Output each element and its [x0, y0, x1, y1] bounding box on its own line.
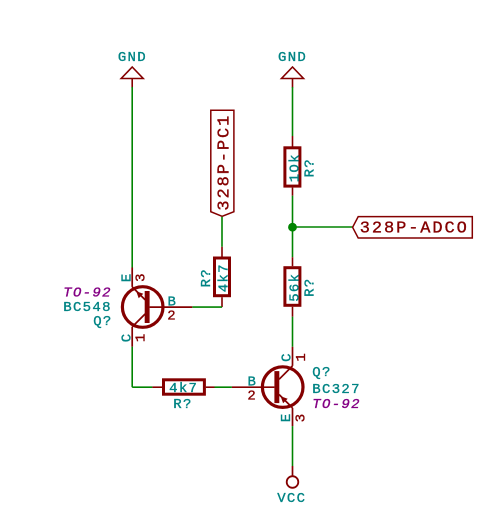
svg-text:4k7: 4k7 — [217, 263, 233, 292]
svg-text:4k7: 4k7 — [169, 381, 198, 397]
Q1 body circle — [122, 287, 163, 328]
svg-text:GND: GND — [118, 50, 147, 66]
global label 328P-ADC0 — [353, 217, 473, 239]
svg-text:Q?: Q? — [93, 314, 112, 330]
Q2 body circle — [262, 367, 303, 408]
power symbol GND (left) — [118, 50, 147, 87]
wire R 4k7 horizontal to Q2 base — [215, 386, 232, 388]
resistor R? 4k7 (horizontal, base of Q2) — [152, 380, 214, 413]
svg-text:328P-PC1: 328P-PC1 — [215, 114, 234, 211]
wire junction to label ADC0 — [293, 226, 353, 228]
svg-text:VCC: VCC — [277, 491, 306, 507]
global label 328P-PC1 — [211, 110, 235, 216]
svg-text:R?: R? — [303, 158, 319, 177]
svg-text:BC327: BC327 — [312, 382, 361, 398]
Q1 emitter arrow — [136, 291, 143, 298]
wire Q1 collector down and right to R 4k7 horizontal — [132, 347, 152, 388]
Q2 base bar — [274, 371, 279, 403]
Q2 emitter pin 3 — [279, 395, 292, 408]
wire R 10k bottom to junction to R 56k — [292, 196, 294, 258]
svg-text:R?: R? — [173, 397, 192, 413]
resistor R? 10k — [285, 136, 319, 196]
wire R 4k7 bottom to Q1 base — [192, 306, 222, 308]
svg-text:1: 1 — [134, 332, 150, 342]
svg-text:TO-92: TO-92 — [312, 397, 361, 413]
transistor Q2 BC327 (PNP, TO-92) — [232, 347, 361, 426]
svg-text:1Ok: 1Ok — [287, 153, 303, 182]
junction node ADC0 — [288, 223, 297, 232]
Q1 emitter pin 3 — [131, 268, 133, 287]
svg-text:328P-ADCO: 328P-ADCO — [360, 219, 469, 238]
Q1 base bar — [145, 291, 150, 323]
Q2 base pin 2 — [232, 386, 275, 388]
Q1 base pin 2 — [150, 306, 193, 308]
Q1 collector pin 1 — [132, 314, 145, 327]
power symbol GND (right) — [278, 50, 307, 88]
wire GND left rail down to Q1 emitter — [131, 87, 133, 268]
wire label PC1 down to R 4k7 — [221, 217, 223, 247]
svg-text:Q?: Q? — [312, 365, 331, 381]
svg-text:56k: 56k — [287, 273, 303, 302]
svg-text:3: 3 — [134, 272, 150, 282]
svg-text:3: 3 — [294, 413, 310, 423]
power symbol VCC — [277, 466, 306, 507]
resistor R? 4k7 (vertical, base of Q1) — [199, 247, 233, 307]
wire GND right rail down to R 10k — [292, 87, 294, 136]
Q2 emitter arrow — [281, 396, 288, 403]
wire R 56k bottom to Q2 collector — [292, 317, 294, 347]
wire Q2 emitter down to VCC — [292, 426, 294, 466]
svg-text:2: 2 — [167, 309, 177, 325]
svg-text:R?: R? — [303, 277, 319, 296]
svg-text:GND: GND — [278, 50, 307, 66]
Q2 collector pin 1 — [292, 347, 294, 366]
transistor Q1 BC548 (NPN, TO-92) — [63, 268, 192, 347]
svg-text:1: 1 — [294, 352, 310, 362]
svg-text:2: 2 — [247, 388, 257, 404]
svg-text:R?: R? — [199, 268, 215, 287]
resistor R? 56k — [285, 257, 319, 317]
